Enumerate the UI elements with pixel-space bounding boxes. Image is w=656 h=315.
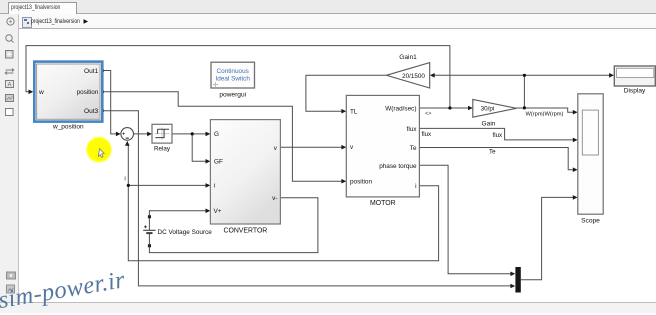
wire: Te to Scope in3	[419, 148, 573, 170]
wire: Out3 to mux	[104, 111, 511, 286]
svg-text:Out3: Out3	[84, 108, 99, 115]
sum block	[121, 128, 134, 141]
svg-text:Relay: Relay	[154, 146, 171, 153]
svg-text:i: i	[415, 183, 416, 190]
svg-text:30/pi: 30/pi	[481, 106, 495, 113]
svg-text:Scope: Scope	[581, 217, 600, 224]
watermark sim-power.ir	[0, 266, 127, 315]
svg-text:Te: Te	[489, 149, 496, 156]
svg-text:CONVERTOR: CONVERTOR	[224, 227, 268, 234]
wire: Out1 to sum	[104, 71, 117, 134]
wire: W(rad/sec) to Gain 30/pi	[419, 107, 469, 109]
svg-text:20/1500: 20/1500	[402, 73, 425, 80]
svg-text:Te: Te	[410, 145, 417, 152]
svg-text:phase torque: phase torque	[379, 163, 417, 170]
toolbar icons (svg)	[0, 0, 18, 302]
wire: CONVERTOR v to MOTOR v	[281, 146, 342, 148]
svg-text:i: i	[124, 175, 125, 182]
cursor highlight	[87, 137, 112, 162]
svg-text:flux: flux	[407, 126, 418, 133]
breadcrumb model icon	[22, 17, 32, 28]
MOTOR block	[346, 95, 419, 207]
svg-text:w_position: w_position	[52, 123, 84, 130]
powergui block	[211, 62, 255, 98]
mux block	[515, 267, 520, 293]
svg-text:Continuous: Continuous	[217, 68, 249, 75]
wire: flux to Scope in2	[419, 128, 573, 140]
wire: i feedback (MOTOR i to sum and CONVERTOR i)	[128, 145, 438, 261]
subsystem w_position (selected)	[34, 62, 102, 131]
wire: Relay output to G and GF	[172, 134, 206, 161]
svg-text:i: i	[214, 183, 215, 190]
DC Voltage Source	[143, 215, 212, 247]
wire: sum output to Relay	[134, 133, 148, 135]
wire: mux output to Scope in4	[521, 197, 574, 279]
active tab	[8, 2, 77, 15]
svg-text:position: position	[77, 89, 99, 96]
relay block	[152, 124, 172, 152]
svg-text:flux: flux	[422, 131, 433, 138]
gain Gain (30/pi)	[473, 99, 517, 127]
wire: W(rad/sec) feedback to w input	[26, 46, 450, 108]
left toolbar	[0, 14, 19, 302]
svg-text:MOTOR: MOTOR	[370, 200, 396, 207]
svg-text:Gain: Gain	[482, 120, 496, 127]
gain Gain1 (20/1500)	[386, 54, 429, 88]
svg-text:<>: <>	[425, 111, 432, 117]
svg-text:v-: v-	[272, 195, 277, 202]
svg-text:Out1: Out1	[84, 68, 99, 75]
svg-text:w: w	[38, 89, 44, 96]
svg-text:V+: V+	[214, 208, 222, 215]
breadcrumb bar	[0, 14, 656, 29]
wire: W(rpm) branch to Gain1 and Display	[434, 75, 610, 108]
arrowheads	[29, 73, 614, 288]
wire: DC source minus to CONVERTOR v-	[149, 198, 318, 253]
wire: phase torque to mux in1	[419, 165, 511, 273]
CONVERTOR block	[210, 120, 280, 235]
tab bar	[0, 0, 656, 14]
svg-text:GF: GF	[214, 159, 223, 166]
svg-text:flux: flux	[493, 132, 504, 139]
svg-text:W(rpm)W(rpm): W(rpm)W(rpm)	[526, 112, 564, 118]
junction dots	[102, 69, 526, 187]
Scope block	[578, 94, 603, 225]
wire: Gain 30/pi output to Scope in1	[516, 108, 573, 112]
breadcrumb text	[31, 18, 80, 25]
svg-text:Display: Display	[624, 88, 646, 95]
svg-text:Gain1: Gain1	[399, 54, 417, 61]
svg-text:powergui: powergui	[219, 91, 246, 98]
svg-text:TL: TL	[350, 109, 358, 116]
status bar	[0, 302, 656, 313]
svg-text:DC Voltage Source: DC Voltage Source	[158, 229, 213, 236]
svg-text:position: position	[350, 179, 372, 186]
wire: position to MOTOR position	[104, 92, 342, 181]
svg-text:Ideal Switch: Ideal Switch	[215, 75, 250, 82]
wire: Gain1 output to TL	[306, 75, 387, 111]
svg-text:G: G	[214, 131, 219, 138]
svg-text:W(rad/sec): W(rad/sec)	[385, 106, 416, 113]
wire: DC source plus to V+	[149, 211, 206, 215]
Display block	[614, 66, 655, 95]
